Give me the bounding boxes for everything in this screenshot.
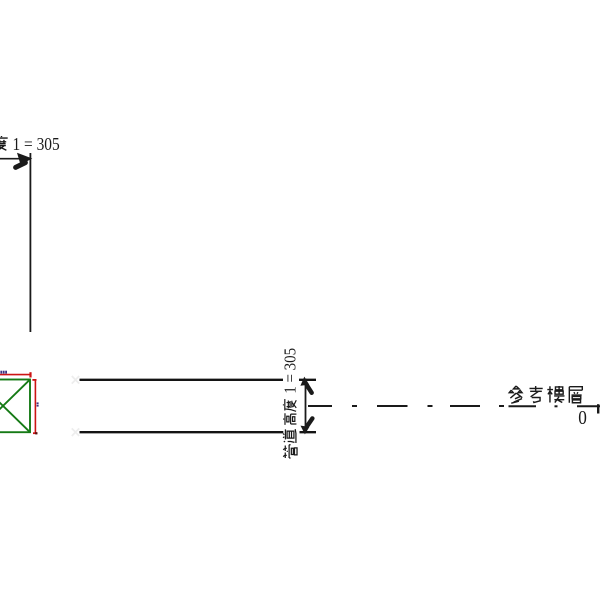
- spot elevation arrowhead (right-pointing): [17, 153, 32, 165]
- spot elevation text "(管道高)度 1 = 305" top-left, clipped at canvas edge: [0, 134, 60, 154]
- height dimension bottom end blob: [35, 432, 37, 434]
- faint crop-region cross at left end of top duct line: [72, 376, 79, 384]
- level name text "參考樓層": [509, 386, 582, 403]
- svg-text:0: 0: [578, 408, 587, 429]
- dimension arrow up tail stroke: [307, 385, 312, 393]
- duct elevation bottom line: [80, 431, 284, 433]
- red width dimension line (top of square): [0, 374, 31, 376]
- duct bottom line stub right of text: [300, 431, 317, 433]
- faint crop-region cross at left end of bottom duct line: [72, 428, 79, 436]
- duct riser section square (green): [0, 380, 30, 433]
- dimension arrow down tail stroke: [307, 418, 312, 426]
- rotated dimension text "管道高度 1 = 305": [281, 348, 300, 458]
- spot elevation leader horizontal line: [0, 158, 24, 160]
- dimension arrowhead down: [301, 426, 310, 435]
- red height dimension top tick: [32, 379, 36, 381]
- reference level dash-dot line: [308, 405, 600, 407]
- svg-text:1 = 305: 1 = 305: [281, 348, 300, 394]
- dimension witness arrow line (vertical): [305, 379, 307, 432]
- height dimension micro text (blue): [37, 402, 39, 406]
- red height dimension bottom tick: [33, 432, 37, 434]
- spot elevation arrow tail stroke: [16, 163, 26, 168]
- svg-text:1 = 305: 1 = 305: [13, 134, 60, 154]
- red width dimension right tick: [29, 372, 31, 377]
- duct top line stub right of text: [299, 379, 316, 381]
- spot elevation leader vertical line: [29, 153, 31, 332]
- dimension arrowhead up: [300, 377, 309, 386]
- duct elevation top line: [80, 379, 284, 381]
- width dimension micro text (blue): [0, 371, 7, 374]
- reference level end tick: [597, 404, 599, 413]
- red height dimension line (right of square): [34, 380, 36, 434]
